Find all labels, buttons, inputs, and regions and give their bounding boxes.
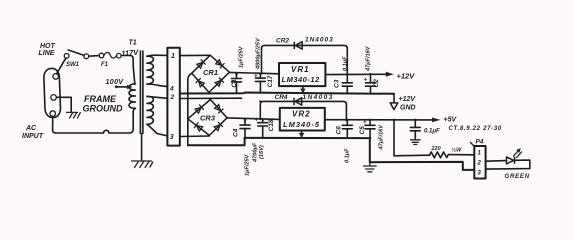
svg-text:C5: C5 (359, 126, 366, 135)
svg-text:CR4: CR4 (275, 94, 288, 101)
svg-text:GND: GND (400, 105, 416, 112)
svg-text:½W: ½W (452, 147, 463, 154)
svg-text:1μF/25V: 1μF/25V (245, 153, 251, 176)
svg-text:3: 3 (170, 134, 174, 141)
svg-text:0.1μF: 0.1μF (343, 56, 349, 71)
svg-text:+: + (254, 74, 258, 80)
svg-text:SW1: SW1 (66, 62, 80, 68)
svg-text:FRAME: FRAME (84, 94, 117, 104)
svg-text:117V: 117V (121, 48, 140, 58)
svg-text:0.1μF: 0.1μF (424, 129, 440, 135)
svg-text:C2: C2 (373, 79, 380, 88)
svg-text:+: + (364, 78, 368, 84)
svg-text:1N4003: 1N4003 (303, 94, 334, 101)
svg-text:1: 1 (171, 53, 175, 60)
svg-text:VR1: VR1 (291, 65, 310, 74)
svg-text:C4: C4 (233, 128, 240, 137)
svg-text:47μF/16V: 47μF/16V (379, 124, 385, 151)
svg-text:VR2: VR2 (292, 110, 311, 119)
svg-text:LINE: LINE (39, 50, 55, 57)
svg-text:P4: P4 (476, 139, 484, 146)
svg-text:GROUND: GROUND (83, 104, 123, 114)
svg-text:220: 220 (431, 146, 441, 152)
svg-text:1N4003: 1N4003 (305, 37, 334, 44)
svg-text:0.1μF: 0.1μF (345, 148, 351, 163)
svg-text:4800μF/25V: 4800μF/25V (256, 37, 262, 70)
svg-text:+: + (255, 118, 259, 124)
svg-text:C3: C3 (334, 79, 341, 88)
svg-text:C17: C17 (267, 75, 274, 87)
svg-text:CT.8.9.22 27-30: CT.8.9.22 27-30 (449, 126, 502, 132)
svg-text:4700μF: 4700μF (253, 142, 259, 163)
svg-text:C6: C6 (336, 126, 343, 135)
svg-text:+: + (363, 120, 367, 126)
svg-text:4: 4 (169, 86, 174, 93)
svg-text:CR1: CR1 (203, 68, 218, 77)
svg-text:1μF/25V: 1μF/25V (239, 45, 245, 68)
svg-text:+5V: +5V (444, 117, 458, 124)
svg-text:+12V: +12V (397, 72, 416, 81)
svg-text:AC: AC (25, 125, 37, 132)
svg-text:+12V: +12V (399, 96, 417, 103)
svg-text:47μF/16V: 47μF/16V (366, 45, 372, 72)
svg-text:F1: F1 (101, 62, 109, 68)
svg-text:(16V): (16V) (259, 145, 265, 159)
svg-text:2: 2 (477, 161, 482, 167)
svg-text:C18: C18 (268, 119, 275, 131)
svg-text:GREEN: GREEN (505, 174, 530, 180)
svg-text:HOT: HOT (40, 43, 56, 50)
svg-text:2: 2 (170, 94, 175, 101)
svg-text:100V: 100V (106, 79, 125, 86)
svg-text:T1: T1 (129, 40, 137, 47)
svg-text:LM340-12: LM340-12 (282, 75, 321, 84)
svg-text:C1: C1 (231, 79, 238, 88)
svg-text:CR2: CR2 (276, 38, 289, 45)
svg-text:INPUT: INPUT (22, 133, 44, 140)
svg-text:CR3: CR3 (200, 114, 216, 123)
svg-text:LM340-5: LM340-5 (283, 120, 320, 129)
